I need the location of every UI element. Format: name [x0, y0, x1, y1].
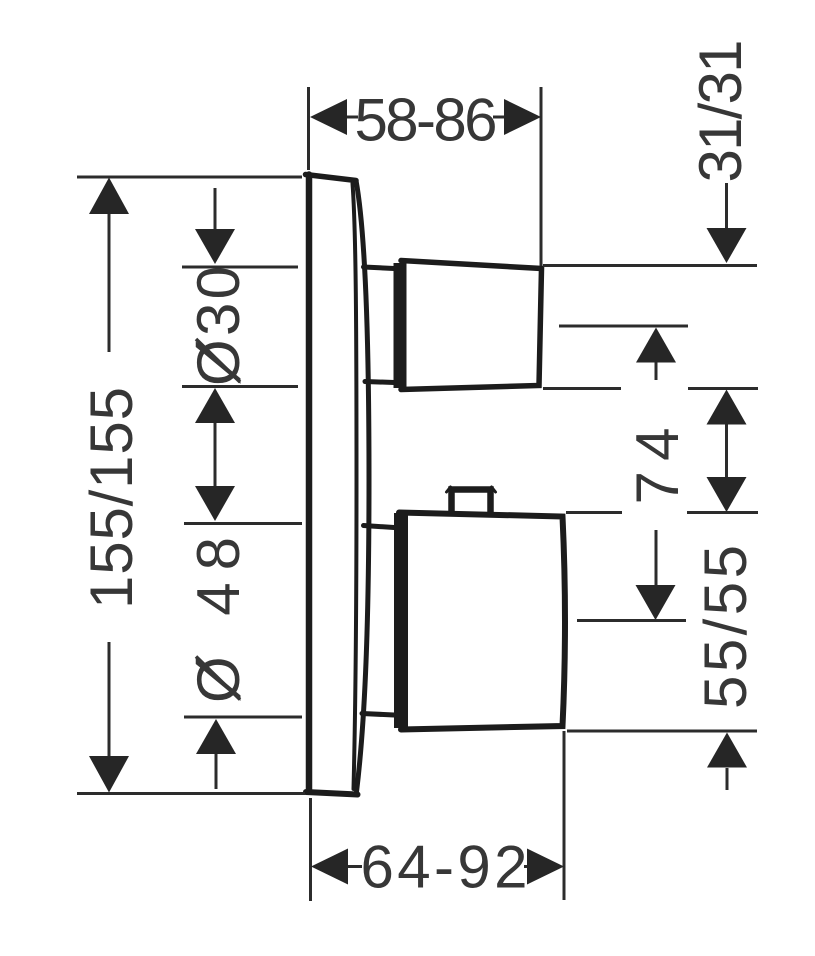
dim 64-92 right extension line — [563, 731, 566, 900]
big handle bottom extension line — [567, 730, 757, 733]
arrowhead dia48 top (pointing down) — [195, 486, 235, 521]
arrowhead 74 bottom (pointing down) — [636, 585, 676, 620]
dim 74 top reference line — [559, 325, 688, 328]
shaft between dia30 and dia48 — [214, 423, 217, 486]
dim 155/155 bottom reference line — [77, 792, 305, 795]
small handle back flange — [394, 263, 407, 388]
big handle stem bottom line — [362, 714, 394, 716]
big handle top button — [452, 490, 491, 514]
arrowhead 155/155 top — [89, 178, 129, 215]
button top-right nub — [492, 487, 496, 492]
plate top edge — [306, 175, 357, 181]
dim 155/155 top reference line — [77, 176, 302, 179]
dim 58-86 right extension line — [540, 87, 543, 266]
arrowhead 155/155 bottom — [89, 756, 129, 793]
dim 74 upper shaft — [655, 362, 658, 380]
big handle top extension line right — [687, 511, 758, 514]
arrowhead 58-86 right — [504, 99, 541, 135]
big handle back flange — [394, 513, 408, 728]
dim 74 bottom reference line — [577, 619, 686, 622]
big handle top extension line left — [566, 511, 622, 514]
svg-text:155/155: 155/155 — [78, 387, 145, 609]
arrowhead dia30 bottom (pointing up) — [195, 388, 235, 423]
arrowhead 64-92 right — [527, 849, 564, 885]
arrowhead dia30 top (pointing down) — [195, 229, 235, 264]
dim 31/31 shaft — [725, 183, 728, 228]
arrowhead 31/31 (pointing down) — [707, 228, 747, 263]
dim 155/155 shaft lower — [108, 642, 111, 759]
small handle outline — [401, 261, 542, 390]
plate front outer curve — [356, 181, 369, 793]
arrowhead dia48 bottom (pointing up) — [196, 719, 236, 754]
small handle stem top line — [364, 267, 395, 269]
dim 55/55 lower shaft — [726, 768, 729, 790]
dim 64-92 left extension line — [309, 798, 312, 901]
arrowhead 55/55 lower (pointing up) — [707, 733, 747, 768]
small handle stem bottom line — [365, 382, 394, 383]
dia30 top reference line — [182, 266, 298, 269]
svg-text:55/55: 55/55 — [692, 545, 759, 709]
small handle bottom extension line right — [688, 387, 758, 390]
dia48 slash extension — [196, 657, 240, 700]
dia48 bottom reference line — [184, 716, 302, 719]
plate front inner curve — [353, 184, 357, 790]
dim 64-92 left tick — [348, 865, 362, 868]
dim 74 lower shaft — [655, 530, 658, 586]
dim 58-86 left extension line — [307, 87, 310, 170]
dim 155/155 shaft upper — [108, 213, 111, 352]
button top-left nub — [447, 487, 451, 492]
svg-text:64-92: 64-92 — [361, 834, 528, 901]
arrowhead 74 top (pointing up) — [636, 328, 676, 363]
svg-text:Ø30: Ø30 — [185, 266, 252, 386]
plate bottom edge — [306, 792, 358, 795]
small handle bottom extension line left — [543, 387, 621, 390]
big handle stem top line — [364, 526, 395, 528]
dia48 top reference line — [184, 522, 302, 525]
plate back edge — [306, 175, 313, 792]
arrowhead 55/55 upper (pointing down) — [707, 477, 747, 512]
small handle top extension line — [543, 264, 757, 267]
dim dia30 upper shaft — [214, 188, 217, 230]
dim 58-86 right tick — [493, 116, 505, 119]
arrowhead 64-92 left — [311, 849, 348, 885]
dim 64-92 right tick — [524, 865, 534, 868]
svg-text:31/31: 31/31 — [687, 40, 754, 183]
dia30 bottom reference line — [182, 385, 298, 388]
shaft between 31/31 and 55/55 arrows — [725, 424, 728, 478]
dim 58-86 left tick — [346, 116, 358, 119]
arrowhead 58-86 left — [310, 99, 347, 135]
big handle outline — [399, 513, 565, 730]
dia48 lower shaft — [215, 754, 218, 789]
svg-text:58-86: 58-86 — [355, 87, 498, 154]
arrowhead 31/31 lower (pointing up) — [707, 390, 747, 425]
dia30 slash extension — [196, 339, 240, 382]
